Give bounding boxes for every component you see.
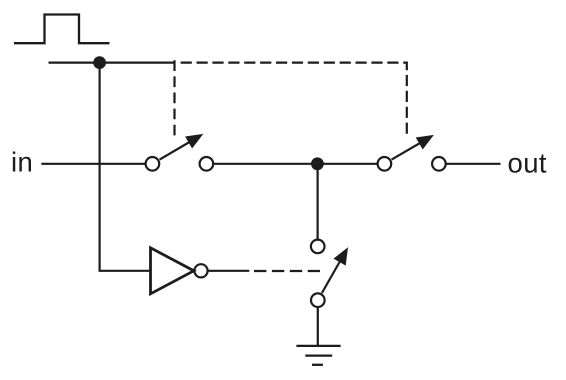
wire: inverter output (solid) — [208, 270, 249, 272]
wire: switch S3 to ground — [317, 307, 319, 346]
wire: clock node down to inverter input — [100, 63, 151, 271]
switch S3 — [311, 240, 348, 307]
wire: switch S2 to out — [446, 163, 500, 165]
wire: in to switch S1 — [41, 163, 145, 165]
wire: dashed control line to switch S3 — [254, 270, 320, 272]
wire: dashed drop to switch S1 — [173, 60, 175, 135]
wire: clock control line (solid) — [49, 61, 176, 63]
clock pulse symbol — [14, 15, 110, 44]
junction dot (middle node) — [311, 157, 324, 170]
ground — [296, 346, 340, 365]
wire: middle node down to switch S3 — [317, 164, 319, 240]
inverter U1 — [151, 248, 194, 294]
inverter output bubble — [194, 264, 207, 277]
switch S1 — [146, 134, 214, 171]
svg-text:in: in — [11, 147, 33, 178]
svg-text:out: out — [508, 147, 547, 178]
junction dot (clock node) — [93, 56, 106, 69]
switch S2 — [378, 135, 446, 171]
wire: switch S1 to switch S2 — [213, 163, 377, 165]
wire: dashed control line (top, to switch S2) — [181, 63, 407, 136]
